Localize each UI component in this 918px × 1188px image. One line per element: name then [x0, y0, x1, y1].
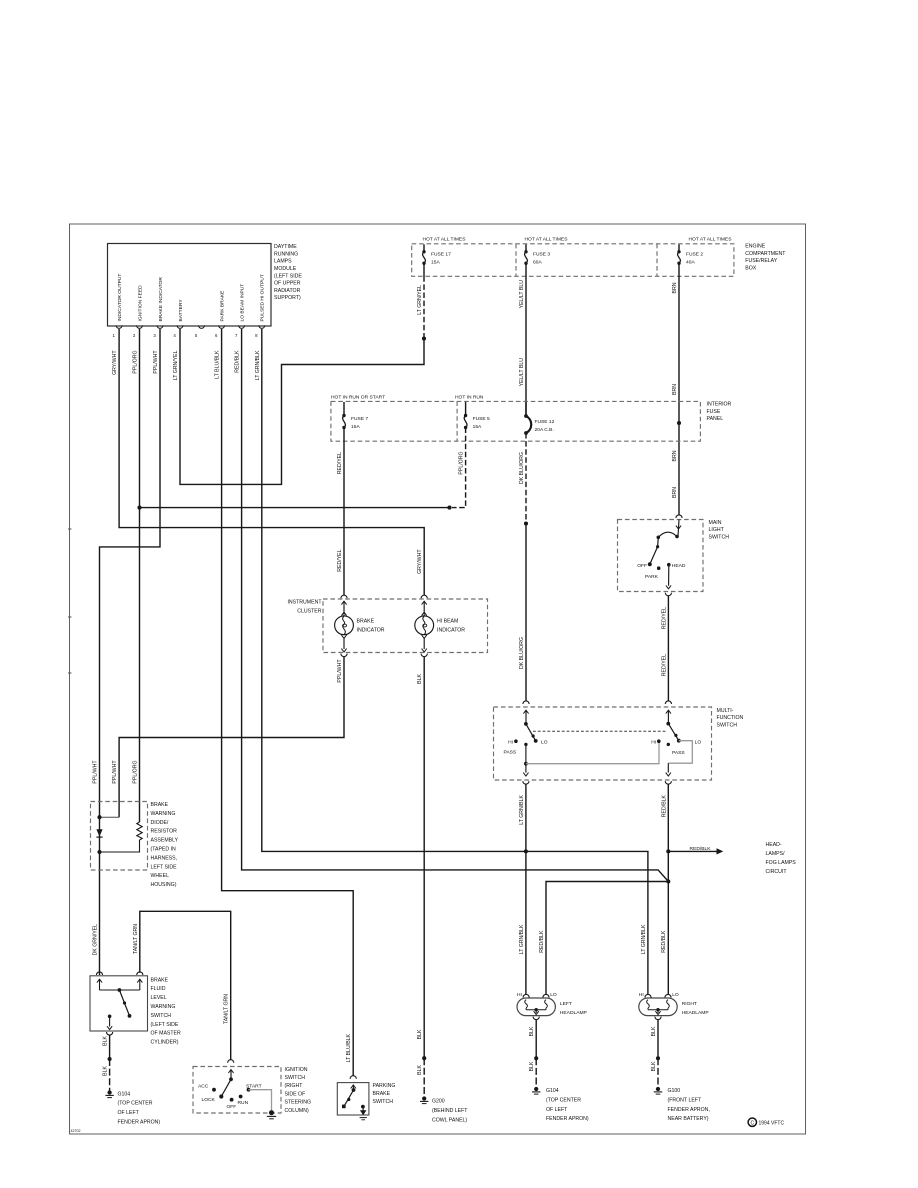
svg-text:DK GRN/YEL: DK GRN/YEL	[93, 924, 99, 956]
engine fuse box section divider 2	[656, 244, 658, 276]
svg-text:DK BLU/ORG: DK BLU/ORG	[519, 637, 525, 669]
junction diode anode	[97, 815, 101, 819]
svg-text:(TAPED IN: (TAPED IN	[151, 847, 177, 853]
svg-text:PANEL: PANEL	[707, 416, 724, 422]
svg-text:(TOP CENTER: (TOP CENTER	[546, 1097, 581, 1103]
wire LT GRN/BLK multi-function switch to left headlamp HI	[525, 784, 527, 995]
hi beam indicator lamp	[421, 595, 427, 598]
interior fuse panel box	[331, 401, 701, 441]
svg-text:LAMPS: LAMPS	[274, 259, 292, 265]
svg-text:FUSE/RELAY: FUSE/RELAY	[745, 258, 777, 264]
svg-text:RED/YEL: RED/YEL	[661, 654, 667, 676]
svg-text:LT GRN/YEL: LT GRN/YEL	[417, 285, 423, 315]
svg-text:FENDER APRON): FENDER APRON)	[546, 1116, 589, 1122]
dimmer left HI contact	[514, 739, 518, 743]
svg-text:HEAD-: HEAD-	[766, 842, 782, 848]
svg-text:PASS: PASS	[504, 750, 517, 756]
wire PPL/ORG fuse5 dashed segment	[452, 428, 466, 508]
svg-text:DIODE/: DIODE/	[151, 820, 169, 826]
dimmer right LO link wire	[668, 741, 692, 764]
svg-text:INDICATOR: INDICATOR	[437, 628, 465, 634]
svg-text:PPL/ORG: PPL/ORG	[459, 452, 465, 475]
svg-text:LO: LO	[541, 739, 548, 745]
svg-text:HI: HI	[508, 739, 513, 745]
dimmer left PASS contact	[524, 743, 527, 746]
svg-text:RIGHT: RIGHT	[682, 1001, 697, 1007]
svg-text:WARNING: WARNING	[151, 1004, 176, 1010]
wire resistor bottom to junction	[100, 840, 140, 852]
svg-text:GRY/WHT: GRY/WHT	[112, 350, 118, 375]
wire PPL/ORG pin2 to diode-resistor assembly	[139, 329, 141, 822]
fuse F7 15A	[342, 414, 345, 417]
svg-text:(TOP CENTER: (TOP CENTER	[118, 1101, 153, 1107]
svg-text:LO: LO	[550, 992, 557, 998]
svg-text:FUSE 5: FUSE 5	[473, 416, 490, 422]
svg-text:START: START	[246, 1083, 262, 1089]
svg-text:TAN/LT GRN: TAN/LT GRN	[133, 924, 139, 954]
junction BRN in interior fuse panel	[677, 421, 681, 425]
left headlamp	[517, 998, 555, 1016]
brake fluid switch bar	[100, 989, 140, 991]
fuse 17 stem	[423, 244, 425, 251]
splice node LT GRN/YEL	[422, 337, 426, 341]
ignition OFF contact	[230, 1098, 234, 1102]
svg-text:RESISTOR: RESISTOR	[151, 829, 178, 835]
module pin 6 connector	[219, 325, 225, 328]
svg-text:HOT AT ALL TIMES: HOT AT ALL TIMES	[525, 237, 569, 243]
svg-text:MODULE: MODULE	[274, 266, 297, 272]
svg-text:BLK: BLK	[103, 1035, 109, 1045]
svg-text:BOX: BOX	[745, 265, 756, 271]
svg-text:15A: 15A	[473, 424, 482, 430]
wire PPL/WHT pin3 jog	[100, 329, 161, 975]
wire BLK brake fluid switch to ground	[109, 1035, 111, 1059]
svg-text:BRAKE: BRAKE	[151, 977, 169, 983]
wire YEL/LT BLU fuse3 to fuse12	[525, 263, 527, 416]
daytime running lamps module U1 box	[108, 244, 272, 327]
svg-text:G100: G100	[668, 1088, 681, 1094]
svg-text:G104: G104	[546, 1088, 559, 1094]
svg-text:INTERIOR: INTERIOR	[707, 402, 732, 408]
svg-text:FUNCTION: FUNCTION	[717, 715, 744, 721]
brake fluid switch output contact	[108, 1015, 112, 1019]
svg-text:RED/BLK: RED/BLK	[661, 794, 667, 817]
ground G200	[422, 1096, 426, 1100]
engine fuse box section divider 1	[515, 244, 517, 276]
junction BLK left lamp	[534, 1056, 538, 1060]
svg-text:HI: HI	[639, 992, 644, 998]
svg-text:HARNESS,: HARNESS,	[151, 855, 178, 861]
ignition ACC contact	[212, 1088, 216, 1092]
svg-text:HOT AT ALL TIMES: HOT AT ALL TIMES	[423, 237, 467, 243]
junction PPL/ORG at pin2 column	[137, 506, 141, 510]
wire DK BLU/ORG splice to multi-function switch	[525, 524, 527, 701]
multi-function switch box	[494, 707, 712, 780]
main light switch HEAD contact	[667, 563, 671, 567]
fuse 7 stem	[343, 402, 345, 416]
main light switch wiper blade	[657, 536, 661, 540]
splice node DK BLU/ORG	[524, 521, 528, 525]
main light switch PARK contact	[657, 566, 661, 570]
brake fluid level warning switch box	[90, 976, 148, 1031]
module pin 1 connector	[116, 325, 122, 328]
wire BLK right headlamp to ground	[657, 1020, 659, 1059]
dimmer right HI contact	[657, 739, 661, 743]
wire BLK cluster to G200	[423, 657, 425, 1058]
svg-text:PPL/WHT: PPL/WHT	[112, 760, 118, 784]
svg-text:RADIATOR: RADIATOR	[274, 288, 301, 294]
ignition START to ground wire	[249, 1090, 272, 1111]
svg-text:LT GRN/BLK: LT GRN/BLK	[641, 924, 647, 954]
junction hi-beam bus at left lamp column	[524, 849, 528, 853]
svg-text:RED/YEL: RED/YEL	[661, 607, 667, 629]
brake fluid switch wiper	[118, 988, 122, 992]
border tick marks	[68, 528, 72, 530]
svg-text:PPL/WHT: PPL/WHT	[153, 350, 159, 374]
svg-text:BLK: BLK	[529, 1061, 535, 1071]
svg-text:RUN: RUN	[238, 1100, 249, 1106]
module pin 4 connector	[177, 325, 183, 328]
svg-text:CYLINDER): CYLINDER)	[151, 1040, 179, 1046]
pass link gray wire left PASS to right HI	[526, 743, 659, 764]
svg-text:G200: G200	[432, 1099, 445, 1105]
svg-text:LT BLU/BLK: LT BLU/BLK	[346, 1033, 352, 1062]
wire LT GRN/YEL fuse17 to splice (dashed in connector)	[423, 263, 425, 276]
svg-text:PPL/WHT: PPL/WHT	[337, 659, 343, 683]
svg-text:DAYTIME: DAYTIME	[274, 244, 297, 250]
svg-text:BRAKE: BRAKE	[373, 1091, 391, 1097]
svg-text:LAMPS/: LAMPS/	[766, 851, 786, 857]
svg-text:BRN: BRN	[672, 282, 678, 293]
svg-text:HI: HI	[517, 992, 522, 998]
brake fluid switch left connector	[96, 972, 102, 975]
wire BLK left headlamp to ground	[535, 1020, 537, 1059]
svg-text:RED/BLK: RED/BLK	[539, 930, 545, 953]
svg-text:STEERING: STEERING	[285, 1100, 312, 1106]
svg-text:NEAR BATTERY): NEAR BATTERY)	[668, 1116, 709, 1122]
brake warning diode/resistor assembly box	[91, 802, 148, 871]
junction BLK right lamp	[656, 1056, 660, 1060]
ignition START contact	[247, 1088, 251, 1092]
wire RED/BLK branch to left headlamp LO	[546, 882, 668, 995]
wire BLK dashed to G200	[423, 1058, 425, 1096]
svg-text:RED/BLK: RED/BLK	[235, 350, 241, 373]
svg-text:LO: LO	[672, 992, 679, 998]
interior fuse panel divider	[456, 401, 458, 441]
svg-text:INSTRUMENT: INSTRUMENT	[287, 600, 322, 606]
main light switch box	[618, 520, 704, 592]
svg-text:LT GRN/BLK: LT GRN/BLK	[255, 350, 261, 380]
svg-text:SWITCH: SWITCH	[285, 1075, 306, 1081]
svg-text:1: 1	[112, 333, 115, 338]
wire PPL/WHT cluster to diode assembly	[119, 657, 344, 817]
svg-text:FUSE 2: FUSE 2	[686, 252, 703, 258]
wire PPL/ORG splice to module pin 2 junction	[140, 507, 450, 509]
brake fluid switch right connector	[137, 972, 143, 975]
svg-text:ASSEMBLY: ASSEMBLY	[151, 838, 179, 844]
svg-text:20A C.B.: 20A C.B.	[535, 427, 554, 433]
svg-text:FENDER APRON): FENDER APRON)	[118, 1120, 161, 1126]
svg-text:LO BEAM INPUT: LO BEAM INPUT	[240, 284, 246, 322]
svg-text:BLK: BLK	[103, 1065, 109, 1075]
svg-text:40A: 40A	[686, 260, 695, 266]
svg-text:OFF: OFF	[637, 563, 647, 569]
module pin 2 connector	[137, 325, 143, 328]
svg-text:FUSE 7: FUSE 7	[351, 416, 368, 422]
dimmer switch right wiper	[666, 722, 670, 726]
parking brake ground contact	[361, 1105, 365, 1109]
svg-text:HOT AT ALL TIMES: HOT AT ALL TIMES	[689, 237, 733, 243]
svg-text:TAN/LT GRN: TAN/LT GRN	[224, 994, 230, 1024]
svg-text:FUSE: FUSE	[707, 409, 721, 415]
wire RED/BLK stub to headlamp/fog circuit arrow	[668, 850, 716, 852]
wire DK BLU/ORG fuse12 dashed to splice	[525, 433, 527, 524]
junction diode cathode	[97, 850, 101, 854]
svg-text:RED/BLK: RED/BLK	[690, 846, 712, 852]
right headlamp	[639, 998, 677, 1016]
svg-text:HEAD: HEAD	[672, 563, 686, 569]
svg-text:LO: LO	[695, 739, 702, 745]
svg-text:FLUID: FLUID	[151, 986, 166, 992]
svg-text:HEADLAMP: HEADLAMP	[560, 1010, 587, 1016]
svg-text:BLK: BLK	[651, 1026, 657, 1036]
main light switch output wire	[668, 565, 670, 586]
fuse F3 60A	[524, 250, 527, 253]
dimmer right output wire	[667, 763, 669, 772]
svg-text:G104: G104	[118, 1091, 131, 1097]
ground G104 left headlamp	[534, 1087, 538, 1091]
svg-text:BATTERY: BATTERY	[178, 299, 184, 322]
wire LT GRN/BLK pin8 to hi-beam bus	[262, 329, 648, 995]
svg-text:COMPARTMENT: COMPARTMENT	[745, 251, 786, 257]
svg-text:CLUSTER: CLUSTER	[297, 608, 321, 614]
ground G100 right headlamp	[656, 1087, 660, 1091]
fuse F5 15A	[464, 414, 467, 417]
svg-text:COLUMN): COLUMN)	[285, 1108, 309, 1114]
svg-text:RUNNING: RUNNING	[274, 251, 298, 257]
svg-text:LEFT: LEFT	[560, 1001, 572, 1007]
svg-text:BRN: BRN	[672, 384, 678, 395]
junction BLK G200	[422, 1056, 426, 1060]
svg-text:(LEFT SIDE: (LEFT SIDE	[274, 273, 302, 279]
svg-text:LT GRN/YEL: LT GRN/YEL	[173, 350, 179, 380]
svg-text:42702: 42702	[71, 1129, 81, 1133]
junction BLK brake switch	[108, 1057, 112, 1061]
svg-text:HOUSING): HOUSING)	[151, 882, 177, 888]
svg-text:OF UPPER: OF UPPER	[274, 281, 301, 287]
svg-text:DK BLU/ORG: DK BLU/ORG	[519, 452, 525, 484]
svg-text:CIRCUIT: CIRCUIT	[766, 869, 788, 875]
svg-text:15A: 15A	[351, 424, 360, 430]
fuse 5 stem	[465, 402, 467, 416]
svg-text:7: 7	[235, 333, 238, 338]
svg-text:3: 3	[153, 333, 156, 338]
svg-text:LOCK: LOCK	[202, 1097, 216, 1103]
dimmer right PASS contact	[667, 743, 670, 746]
wire TAN/LT GRN to ignition switch	[140, 911, 231, 1059]
wire RED/BLK pin7 to low-beam node	[242, 329, 669, 882]
svg-text:HI: HI	[651, 739, 656, 745]
svg-text:BLK: BLK	[417, 673, 423, 683]
fuse F17 15A	[422, 250, 425, 253]
svg-text:BRN: BRN	[672, 487, 678, 498]
svg-text:BLK: BLK	[529, 1026, 535, 1036]
svg-text:LT GRN/BLK: LT GRN/BLK	[519, 924, 525, 954]
svg-text:FOG LAMPS: FOG LAMPS	[766, 860, 797, 866]
svg-text:BRN: BRN	[672, 450, 678, 461]
svg-text:8: 8	[255, 333, 258, 338]
svg-text:IGNITION: IGNITION	[285, 1067, 308, 1073]
svg-text:INDICATOR: INDICATOR	[357, 628, 385, 634]
svg-text:IGNITION FEED: IGNITION FEED	[137, 285, 143, 322]
svg-text:C: C	[750, 1120, 754, 1126]
main light switch input connector	[676, 515, 682, 518]
svg-text:(LEFT SIDE: (LEFT SIDE	[151, 1022, 179, 1028]
svg-text:(RIGHT: (RIGHT	[285, 1083, 304, 1089]
parking brake switch connector	[350, 1076, 356, 1079]
copyright 1994 VFTC	[748, 1118, 756, 1126]
svg-text:4: 4	[173, 333, 176, 338]
svg-text:15A: 15A	[431, 260, 440, 266]
splice node PPL/ORG	[447, 506, 451, 510]
svg-text:ACC: ACC	[198, 1084, 209, 1090]
svg-text:PARKING: PARKING	[373, 1083, 396, 1089]
ignition switch wiper	[229, 1077, 233, 1081]
dimmer switch left wiper	[524, 722, 528, 726]
svg-text:HI BEAM: HI BEAM	[437, 619, 458, 625]
svg-text:PARK: PARK	[645, 574, 659, 580]
svg-text:SUPPORT): SUPPORT)	[274, 295, 301, 301]
fuse F2 40A	[677, 250, 680, 253]
wire LT BLU/BLK pin6 to parking brake switch	[222, 329, 354, 1076]
ignition switch box	[193, 1067, 281, 1114]
dimmer switch left input connector	[523, 701, 529, 704]
svg-text:FUSE 3: FUSE 3	[533, 252, 550, 258]
svg-text:LT GRN/BLK: LT GRN/BLK	[519, 794, 525, 824]
ignition switch input connector	[228, 1060, 234, 1063]
svg-text:PARK BRAKE: PARK BRAKE	[220, 290, 226, 322]
svg-text:MULTI-: MULTI-	[717, 708, 734, 714]
wire link into diode box	[100, 816, 120, 818]
svg-text:GRY/WHT: GRY/WHT	[417, 549, 423, 574]
svg-text:FUSE 17: FUSE 17	[431, 252, 451, 258]
svg-text:PPL/ORG: PPL/ORG	[133, 351, 139, 374]
wire BRN fuse2 to main light switch	[678, 263, 680, 515]
svg-text:OF LEFT: OF LEFT	[546, 1107, 568, 1113]
fuse 3 stem	[525, 244, 527, 251]
svg-text:FUSE 12: FUSE 12	[535, 419, 555, 425]
svg-text:LEFT SIDE: LEFT SIDE	[151, 864, 178, 870]
module pin 7 connector	[239, 325, 245, 328]
svg-text:YEL/LT BLU: YEL/LT BLU	[519, 280, 525, 309]
svg-text:OFF: OFF	[227, 1104, 237, 1110]
module pin 5 connector	[199, 325, 205, 328]
svg-text:ENGINE: ENGINE	[745, 244, 765, 250]
svg-text:MAIN: MAIN	[709, 520, 722, 526]
svg-text:2: 2	[133, 333, 136, 338]
ground at ignition switch	[269, 1110, 274, 1115]
svg-text:(BEHIND LEFT: (BEHIND LEFT	[432, 1108, 468, 1114]
border frame	[70, 224, 806, 1134]
junction RED/BLK to fog lamp circuit	[666, 849, 670, 853]
resistor R1	[137, 822, 142, 840]
svg-text:RED/YEL: RED/YEL	[337, 549, 343, 571]
svg-text:RED/YEL: RED/YEL	[337, 452, 343, 474]
wire RED/BLK multi-function switch to right headlamp LO	[667, 784, 669, 995]
svg-text:PASS: PASS	[672, 750, 685, 756]
mechanical link dashed	[533, 730, 666, 732]
svg-text:RED/BLK: RED/BLK	[661, 930, 667, 953]
svg-text:YEL/LT BLU: YEL/LT BLU	[519, 358, 525, 387]
svg-text:5: 5	[195, 333, 198, 338]
ground G104 brake fluid switch	[107, 1090, 111, 1094]
junction RED/BLK to left lamp LO	[666, 879, 670, 883]
fuse 2 stem	[678, 244, 680, 251]
main light switch wiper arc	[675, 535, 679, 539]
svg-text:6: 6	[215, 333, 218, 338]
svg-text:60A: 60A	[533, 260, 542, 266]
svg-text:COWL PANEL): COWL PANEL)	[432, 1117, 467, 1123]
svg-text:HOT IN RUN: HOT IN RUN	[455, 394, 484, 400]
instrument cluster box	[323, 599, 488, 653]
svg-text:BLK: BLK	[651, 1061, 657, 1071]
svg-text:PPL/WHT: PPL/WHT	[93, 760, 99, 784]
wire RED/YEL main light switch to multi-function switch	[667, 596, 669, 701]
module pin 3 connector	[157, 325, 163, 328]
engine compartment fuse/relay box	[412, 244, 734, 276]
svg-text:FENDER APRON,: FENDER APRON,	[668, 1107, 710, 1113]
svg-text:HEADLAMP: HEADLAMP	[682, 1010, 709, 1016]
svg-text:INDICATOR OUTPUT: INDICATOR OUTPUT	[117, 274, 123, 322]
svg-text:BLK: BLK	[417, 1064, 423, 1074]
diode D1	[96, 829, 102, 836]
svg-text:WHEEL: WHEEL	[151, 873, 170, 879]
svg-text:OF MASTER: OF MASTER	[151, 1031, 182, 1037]
svg-text:BRAKE: BRAKE	[151, 802, 169, 808]
svg-text:LT BLU/BLK: LT BLU/BLK	[215, 350, 221, 379]
svg-text:SIDE OF: SIDE OF	[285, 1091, 306, 1097]
svg-text:SWITCH: SWITCH	[709, 534, 730, 540]
svg-text:OF LEFT: OF LEFT	[118, 1110, 140, 1116]
svg-text:(FRONT LEFT: (FRONT LEFT	[668, 1097, 702, 1103]
svg-text:1994 VFTC: 1994 VFTC	[759, 1121, 785, 1127]
ignition RUN contact	[239, 1095, 243, 1099]
svg-text:PPL/ORG: PPL/ORG	[133, 761, 139, 784]
svg-text:HOT IN RUN OR START: HOT IN RUN OR START	[331, 394, 385, 400]
module pin 8 connector	[259, 325, 265, 328]
svg-text:LEVEL: LEVEL	[151, 995, 167, 1001]
svg-text:SWITCH: SWITCH	[373, 1099, 394, 1105]
parking brake switch wiper	[352, 1088, 356, 1092]
svg-text:BLK: BLK	[417, 1029, 423, 1039]
dimmer switch right input connector	[665, 701, 671, 704]
svg-text:BRAKE: BRAKE	[357, 619, 375, 625]
dimmer left output wire	[525, 744, 527, 763]
svg-text:BRAKE INDICATOR: BRAKE INDICATOR	[158, 277, 164, 322]
parking brake switch box	[337, 1083, 369, 1115]
brake indicator lamp	[341, 595, 347, 598]
svg-text:PULSED HI OUTPUT: PULSED HI OUTPUT	[260, 274, 266, 321]
svg-text:WARNING: WARNING	[151, 811, 176, 817]
wire RED/YEL fuse7 to instrument cluster	[343, 428, 345, 596]
svg-text:SWITCH: SWITCH	[151, 1013, 172, 1019]
wire LT GRN/YEL splice to module pin 4	[180, 329, 424, 484]
wire GRY/WHT pin1 to hi beam indicator	[119, 329, 424, 595]
svg-text:LIGHT: LIGHT	[709, 527, 725, 533]
svg-text:SWITCH: SWITCH	[717, 722, 738, 728]
circuit breaker FUSE 12 20A C.B.	[525, 402, 527, 416]
